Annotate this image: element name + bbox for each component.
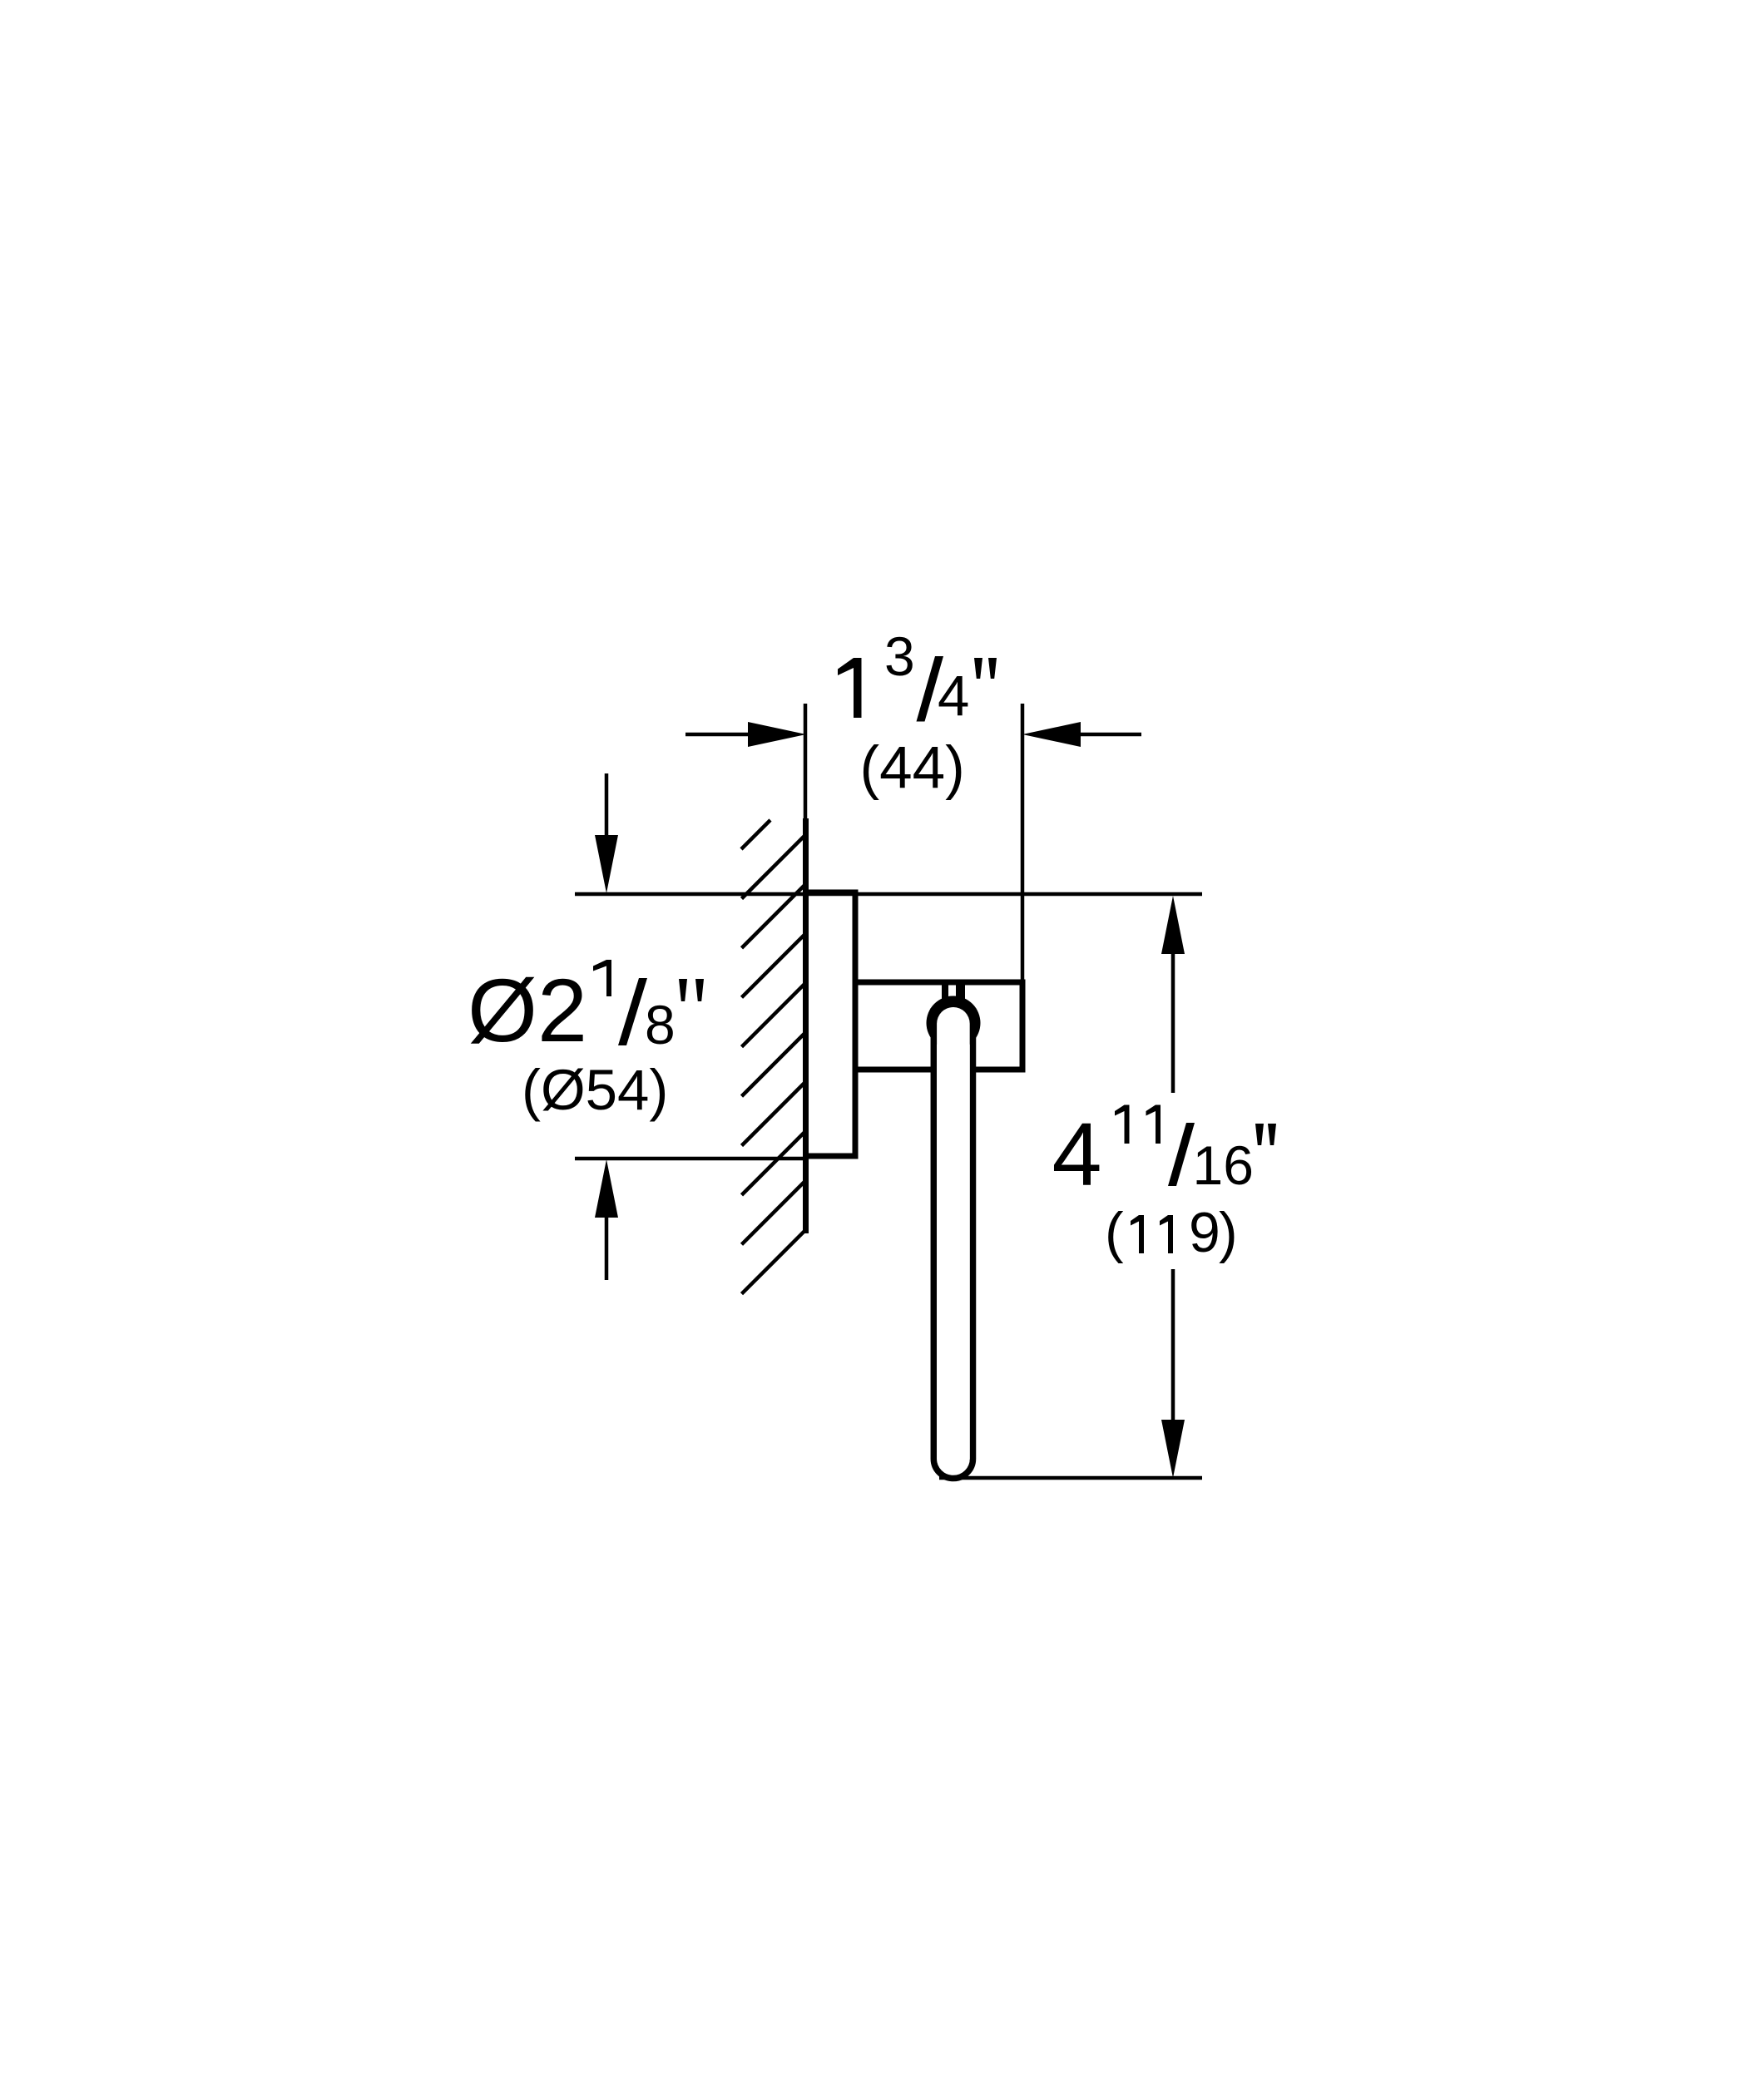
wall surface line	[803, 818, 809, 1233]
svg-text:(Ø54): (Ø54)	[522, 1058, 668, 1122]
svg-text:(: (	[1105, 1201, 1124, 1264]
bottom reference line (diameter)	[575, 1157, 806, 1161]
hanging ring (side view loop)	[933, 1008, 973, 1479]
height dim line lower + arrow	[1171, 1269, 1175, 1421]
label (119)	[1105, 1201, 1238, 1264]
diameter dim bottom arrow	[605, 1216, 609, 1280]
top dim left leader + arrow	[685, 733, 753, 737]
svg-text:4: 4	[1052, 1104, 1102, 1204]
ring inner hole (white)	[937, 1007, 970, 1475]
svg-text:3: 3	[884, 625, 915, 687]
top reference line	[575, 892, 1202, 897]
top dim extension left	[804, 704, 808, 818]
svg-text:): )	[1219, 1201, 1238, 1264]
label 1 3/4"	[838, 625, 997, 728]
bottom reference line (height)	[939, 1476, 1202, 1480]
svg-text:(44): (44)	[860, 735, 965, 801]
svg-text:16: 16	[1193, 1134, 1254, 1196]
svg-text:9: 9	[1189, 1201, 1220, 1264]
height dim line upper + arrow	[1161, 896, 1185, 954]
svg-text:4: 4	[938, 664, 969, 728]
ball joint	[927, 996, 981, 1050]
pivot pin	[942, 982, 948, 1010]
label diameter 2 1/8"	[468, 960, 704, 1060]
svg-text:8: 8	[645, 994, 676, 1055]
arm (holder body)	[855, 982, 1026, 1070]
wall hatching	[741, 820, 804, 1294]
top dim extension right	[1021, 704, 1025, 982]
svg-text:Ø2: Ø2	[468, 960, 587, 1060]
diameter dim top arrow	[605, 773, 609, 838]
label 4 11/16"	[1052, 1104, 1277, 1204]
escutcheon plate (side view)	[803, 892, 855, 1156]
top dim right leader + arrow	[1077, 733, 1141, 737]
